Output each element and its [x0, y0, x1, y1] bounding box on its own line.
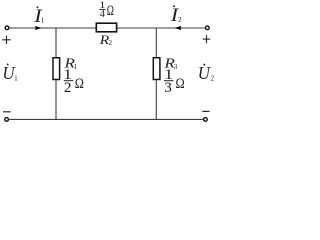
- svg-text:1: 1: [74, 63, 78, 71]
- wire bottom (terminal 1' to terminal 2'): [9, 118, 203, 120]
- terminal port 2 (top-right, open circle): [205, 26, 209, 30]
- wire node A to R2 left: [56, 27, 97, 29]
- terminal port 2' (bottom-right, open circle): [204, 118, 208, 122]
- label U1 (dotted U, subscript 1): [2, 63, 18, 83]
- value label 1/3 ohm (right of R3): [164, 67, 185, 96]
- resistor R1 (left vertical box): [53, 58, 60, 80]
- polarity minus (left): [3, 111, 11, 113]
- label R2 (below box, subscript 2): [98, 32, 112, 47]
- svg-text:2: 2: [178, 16, 182, 24]
- wire left branch upper (node A down to R1): [55, 28, 57, 58]
- value label 1/2 ohm (right of R1): [63, 67, 84, 96]
- svg-text:2: 2: [64, 80, 72, 96]
- label R1 (right of box, subscript 1): [63, 55, 78, 71]
- wire node B to terminal 2: [156, 27, 205, 29]
- wire R2 right to node B: [117, 27, 157, 29]
- polarity minus (right): [202, 110, 209, 112]
- terminal port 1' (bottom-left, open circle): [5, 118, 9, 122]
- svg-text:2: 2: [109, 39, 113, 47]
- polarity plus (left): [2, 36, 11, 44]
- svg-text:Ω: Ω: [176, 75, 185, 92]
- value label 1/4 ohm (above R2): [99, 0, 114, 20]
- svg-text:2: 2: [211, 75, 215, 83]
- label I2 (dotted I, subscript 2): [170, 5, 182, 26]
- current arrow I1 (points right): [35, 26, 42, 30]
- svg-text:4: 4: [100, 9, 105, 20]
- label I1 (dotted I, subscript 1): [33, 6, 45, 27]
- current arrow I2 (points left): [174, 26, 181, 30]
- svg-text:3: 3: [164, 80, 172, 96]
- svg-text:3: 3: [174, 63, 178, 71]
- svg-text:Ω: Ω: [107, 3, 114, 19]
- resistor R3 (right vertical box): [153, 58, 160, 80]
- wire left branch lower (R1 to bottom wire): [55, 80, 57, 119]
- polarity plus (right): [203, 35, 211, 43]
- svg-text:1: 1: [14, 74, 18, 82]
- wire right branch upper (node B down to R3): [155, 28, 157, 58]
- svg-text:Ω: Ω: [75, 75, 84, 92]
- label U2 (dotted U, subscript 2): [198, 63, 215, 83]
- terminal port 1 (top-left, open circle): [5, 26, 9, 30]
- svg-text:1: 1: [41, 17, 45, 25]
- svg-text:U: U: [198, 63, 211, 83]
- wire top-left segment (terminal 1 to node A): [10, 27, 56, 29]
- resistor R2 (top horizontal box): [96, 23, 116, 32]
- label R3 (right of box, subscript 3): [163, 55, 178, 71]
- wire right branch lower (R3 to bottom wire): [155, 80, 157, 119]
